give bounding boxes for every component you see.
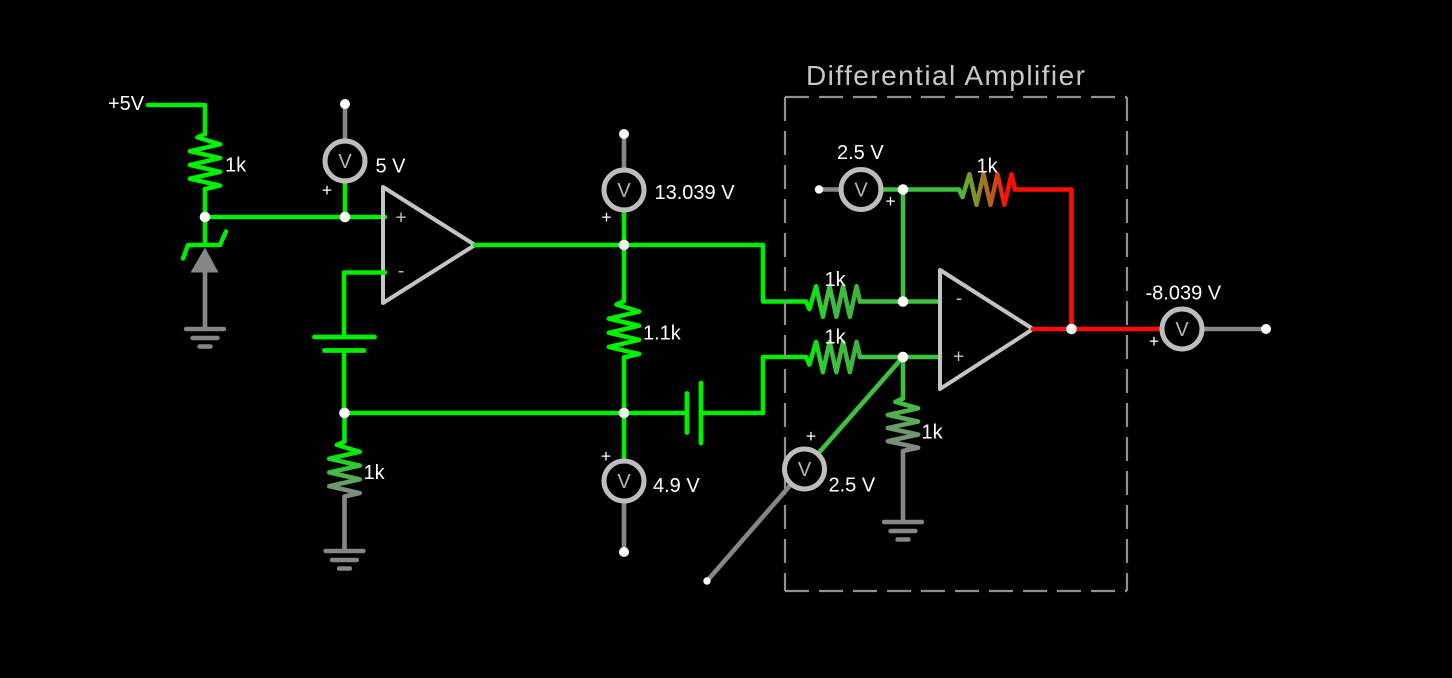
svg-text:+: + (395, 208, 406, 229)
wire B1 to rail (342, 353, 347, 414)
svg-text:Differential Amplifier: Differential Amplifier (806, 60, 1086, 91)
node I output (1066, 324, 1077, 335)
svg-text:1.1k: 1.1k (643, 323, 682, 345)
terminal V6 bottom (703, 577, 710, 584)
svg-text:+: + (953, 347, 964, 368)
wire R5 to plus node (860, 355, 940, 360)
battery B2 plate minus (685, 394, 690, 433)
resistor R6 1k (959, 174, 1015, 205)
resistor R1 1k (190, 134, 220, 189)
wire plus node down (901, 357, 906, 399)
wire V2 top lead (622, 134, 627, 171)
terminal V2 top (619, 129, 629, 139)
node H plus (898, 352, 909, 363)
wire R7 to ground (901, 451, 906, 522)
svg-text:V: V (617, 180, 631, 202)
node F (898, 184, 909, 195)
svg-text:2.5 V: 2.5 V (837, 142, 884, 164)
node A (200, 212, 211, 223)
wire U1 output (475, 245, 806, 302)
svg-text:+: + (322, 180, 332, 200)
svg-text:V: V (617, 471, 631, 493)
svg-text:+: + (806, 426, 816, 446)
svg-text:4.9 V: 4.9 V (653, 475, 700, 497)
wire bottom rail (345, 411, 686, 416)
wire R1 to node A (203, 189, 208, 217)
wire V1 bottom lead (343, 181, 348, 218)
svg-text:V: V (1175, 319, 1189, 341)
battery B1 plate minus (325, 348, 365, 353)
svg-text:2.5 V: 2.5 V (829, 475, 876, 497)
wire R4 to minus node (860, 299, 940, 304)
svg-text:+: + (1149, 331, 1159, 351)
wire V5 right lead (1203, 327, 1266, 332)
svg-text:13.039 V: 13.039 V (655, 182, 736, 204)
svg-text:+5V: +5V (108, 93, 145, 115)
terminal V3 bottom (619, 547, 629, 557)
svg-text:+: + (885, 191, 895, 211)
wire minus node up (901, 190, 906, 302)
node G minus (898, 296, 909, 307)
wire V6 bottom lead (707, 485, 790, 581)
terminal V1 top (340, 99, 350, 109)
terminal V4 left (815, 185, 823, 193)
resistor R5 1k (806, 342, 860, 372)
resistor R3 1.1k (609, 301, 639, 358)
wire U2 output (1033, 327, 1160, 332)
node B junction (340, 212, 351, 223)
svg-text:1k: 1k (977, 156, 999, 178)
wire R2 to ground (342, 497, 347, 552)
op-amp U2 (940, 270, 1033, 389)
svg-text:5 V: 5 V (376, 156, 407, 178)
battery B1 plate plus (315, 335, 375, 340)
voltmeter V3 (604, 461, 644, 501)
wire V3 top lead (622, 413, 627, 461)
resistor R7 1k (888, 399, 918, 452)
svg-text:+: + (601, 446, 611, 466)
voltmeter V2 (604, 170, 644, 210)
svg-text:V: V (798, 459, 812, 481)
voltmeter V4 (841, 170, 881, 210)
resistor R2 1k (329, 442, 360, 497)
svg-text:1k: 1k (825, 327, 847, 349)
battery B2 plate plus (699, 383, 704, 443)
voltmeter V5 (1162, 309, 1202, 349)
resistor R4 1k (806, 286, 860, 317)
voltmeter V1 (325, 141, 365, 181)
wire V4 right lead (881, 187, 904, 192)
wire R3 to rail (622, 358, 627, 414)
svg-text:V: V (338, 151, 352, 173)
wire V6 top lead (819, 357, 903, 453)
terminal V5 right (1261, 324, 1271, 334)
diode D1 anode triangle (191, 248, 219, 273)
wire V2 bottom lead (622, 210, 627, 246)
op-amp U1 (383, 187, 475, 303)
box differential amplifier (785, 97, 1127, 591)
svg-text:-: - (956, 289, 962, 310)
svg-text:-8.039 V: -8.039 V (1146, 283, 1222, 305)
ground G1 (186, 327, 224, 331)
svg-text:1k: 1k (225, 155, 247, 177)
wire V4 left lead (819, 187, 842, 192)
diode D1 zener cathode bar (183, 232, 226, 259)
wire U1 minus input (344, 273, 385, 336)
wire node C to R2 (342, 413, 347, 442)
svg-text:1k: 1k (825, 269, 847, 291)
wire V1 top lead (343, 104, 348, 142)
wire R6 to output (1015, 190, 1072, 330)
node D output (619, 240, 630, 251)
wire +5V supply (148, 105, 205, 134)
svg-text:1k: 1k (364, 462, 386, 484)
wire node A to zener (203, 217, 208, 245)
svg-text:-: - (398, 261, 404, 282)
ground G3 (884, 520, 922, 524)
voltmeter V6 (785, 449, 825, 489)
wire B2 to diffamp (703, 357, 806, 413)
wire node F to R6 (903, 187, 959, 192)
svg-text:V: V (854, 180, 868, 202)
wire node D to R3 (622, 245, 627, 301)
wire node A to opamp (205, 215, 385, 220)
node E rail (619, 408, 630, 419)
svg-text:1k: 1k (922, 422, 944, 444)
ground G2 (326, 549, 364, 553)
svg-text:+: + (601, 207, 611, 227)
wire V3 bottom lead (622, 502, 627, 553)
node C rail (339, 408, 350, 419)
